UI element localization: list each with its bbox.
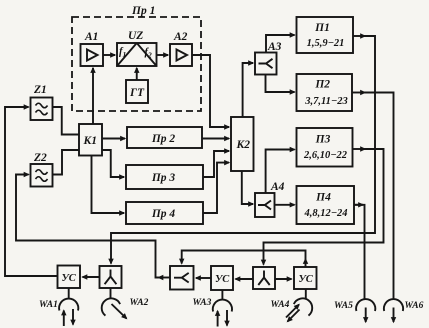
wire П2 output to WA6 [352,92,365,94]
svg-text:WA1: WA1 [39,300,58,310]
wire Пр3 to K2 [203,151,229,177]
svg-text:Пр 3: Пр 3 [151,172,176,184]
svg-text:WA4: WA4 [271,300,290,310]
splitter Y1 [100,266,122,288]
wire K1 to Пр3 [102,150,124,177]
receiver П4 [297,186,355,224]
svg-text:А3: А3 [267,41,282,53]
antenna WA3 [213,300,232,327]
svg-text:Z1: Z1 [33,84,47,96]
wire УС2 to WA3 [221,290,223,299]
wire K1 to Пр2 [102,138,125,140]
svg-text:4,8,12−24: 4,8,12−24 [303,208,347,219]
receiver П1 [297,17,354,53]
antenna WA5 [356,299,375,322]
converter Пр4 [126,202,203,224]
wire УС1 to Z1 [5,107,58,276]
wire Y1 to WA2 [110,288,112,298]
wire A3 to П2 [266,75,295,93]
amplifier УС2 [211,266,233,290]
amplifier УС1 [58,266,81,289]
wire П4 output to WA5 [354,204,363,206]
wire Y2 to УС2 [236,278,254,280]
svg-text:А2: А2 [173,31,188,43]
svg-text:Пр 2: Пр 2 [151,133,176,145]
svg-text:3,7,11−23: 3,7,11−23 [304,96,348,107]
filter Z1 [31,98,53,121]
svg-text:Пр 4: Пр 4 [151,208,176,220]
wire Пр4 to K2 [203,163,229,213]
svg-text:К2: К2 [236,139,251,151]
svg-text:UZ: UZ [128,30,143,42]
wire K1 to A1 [92,68,94,124]
svg-text:Пр 1: Пр 1 [131,5,155,17]
wire U2 to A2 [157,54,169,56]
wire A1 to U2 [103,54,115,56]
receiver П3 [297,128,353,167]
wire Y2 to УС3 [275,278,292,280]
antenna WA2 [98,295,127,319]
filter Z2 [31,164,53,187]
splitter box [170,266,194,290]
dashed box Пр1 [72,17,201,111]
switch K1 [79,124,102,156]
svg-text:УС: УС [62,273,77,284]
converter Пр3 [126,165,203,189]
amplifier A2 [170,44,192,66]
wire splitter to Z2 [159,277,171,279]
splitter Y2 [253,267,275,289]
svg-text:2,6,10−22: 2,6,10−22 [303,150,348,161]
svg-text:УС: УС [299,274,314,285]
wire K1 to Пр4 [92,156,125,214]
antenna WA1 [59,299,78,326]
wire Y1 to УС1 [83,276,100,278]
wire A2 to K2 [192,55,229,127]
splitter A4 [255,193,275,217]
amplifier УС3 [294,267,317,289]
antenna WA6 [384,299,403,322]
amplifier A1 [81,44,104,66]
wire ГТ to U2 [136,68,138,80]
switch K2 [231,117,254,171]
wire Z2 to K1 [53,150,80,175]
wire Z1 to K1 [53,107,80,135]
wire УС2 to splitter [196,277,211,279]
wire K2 to A4 [242,171,253,204]
wire УС3 to WA4 [305,289,307,300]
svg-text:WA2: WA2 [130,298,149,308]
svg-text:УС: УС [215,274,230,285]
svg-text:П2: П2 [314,79,330,91]
converter Пр2 [127,127,202,148]
svg-text:Z2: Z2 [33,152,47,164]
receiver П2 [297,74,353,111]
svg-text:А4: А4 [270,181,285,193]
svg-text:1,5,9−21: 1,5,9−21 [307,38,345,49]
splitter A3 [255,53,277,75]
wire П3 output [353,148,366,150]
svg-text:П1: П1 [314,22,330,34]
svg-text:К1: К1 [83,135,98,147]
svg-text:А1: А1 [84,31,98,43]
antenna WA4 [286,295,316,322]
wire A4 to П3 [266,150,295,194]
wire A4 to П4 [275,204,295,206]
svg-text:ГТ: ГТ [129,87,145,99]
svg-text:WA3: WA3 [193,298,212,308]
svg-text:П3: П3 [315,134,331,146]
oscillator ГТ [126,80,148,103]
mixer U2 [117,43,157,66]
wire Пр2 to K2 [202,138,229,140]
wire УС1 to WA1 [68,288,70,298]
svg-text:WA5: WA5 [334,301,353,311]
wire УС3 to splitter [305,259,307,267]
wire A3 to П1 [266,35,295,53]
svg-text:П4: П4 [315,192,331,204]
wire П1 output [353,35,365,37]
svg-text:f2: f2 [145,47,153,60]
wire K2 to A3 [243,63,253,117]
svg-text:f1: f1 [119,47,126,60]
svg-text:WA6: WA6 [405,301,424,311]
